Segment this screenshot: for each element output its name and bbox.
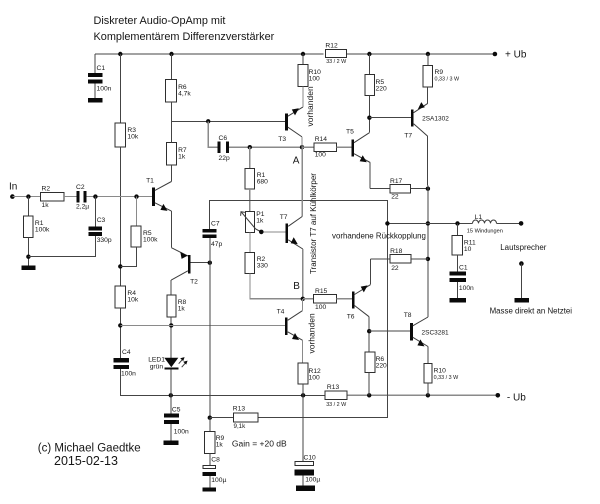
svg-text:T7: T7 bbox=[280, 214, 288, 221]
svg-text:10k: 10k bbox=[127, 297, 138, 304]
wire R10 bottom to T3 bbox=[302, 86, 304, 107]
svg-text:100µ: 100µ bbox=[305, 477, 320, 484]
node junction R10 top bbox=[301, 52, 305, 56]
transistor T7R 2SA1302 bbox=[411, 110, 414, 127]
svg-text:T3: T3 bbox=[278, 136, 286, 143]
node junction R10b bottom bbox=[426, 393, 430, 397]
transistor T8 2SC3281 bbox=[410, 323, 413, 341]
wire C1b bottom bbox=[457, 282, 459, 298]
wire P1 bottom to R2b bbox=[249, 232, 251, 252]
svg-text:C3: C3 bbox=[97, 217, 106, 224]
svg-text:T6: T6 bbox=[347, 314, 355, 321]
node junction R1 top bbox=[26, 194, 30, 198]
node junction R8 bottom rail bbox=[169, 323, 173, 327]
potentiometer P1 1k bbox=[245, 211, 254, 232]
wire R2b bottom to node B bbox=[250, 273, 303, 299]
wire C4 bottom corner bbox=[120, 369, 171, 395]
wire T6 emitter up bbox=[369, 259, 371, 285]
node junction C3 top bbox=[93, 194, 97, 198]
svg-text:0,33 / 3 W: 0,33 / 3 W bbox=[435, 76, 460, 82]
svg-text:C7: C7 bbox=[211, 221, 220, 228]
capacitor C10 100u bbox=[295, 462, 314, 466]
svg-text:100: 100 bbox=[309, 375, 320, 382]
wire +Ub top rail bbox=[95, 53, 324, 55]
wire C2 to T1 base bbox=[86, 196, 152, 198]
wire T2 base to node bbox=[191, 262, 210, 264]
svg-text:330: 330 bbox=[257, 263, 268, 270]
node junction output line bbox=[426, 221, 430, 225]
transistor T6 bbox=[352, 292, 355, 309]
resistor R6 4,7k bbox=[171, 54, 173, 80]
svg-text:R18: R18 bbox=[390, 248, 403, 255]
svg-text:A: A bbox=[293, 155, 300, 166]
node junction R11 top bbox=[455, 221, 459, 225]
svg-text:100: 100 bbox=[315, 152, 326, 159]
svg-text:C4: C4 bbox=[122, 349, 131, 356]
node junction T8 base bbox=[367, 329, 371, 333]
resistor R11 10 bbox=[457, 223, 459, 235]
svg-text:R13: R13 bbox=[327, 384, 340, 391]
svg-text:Transistor T7 auf Kühlkörper: Transistor T7 auf Kühlkörper bbox=[309, 173, 318, 274]
svg-text:C5: C5 bbox=[172, 407, 181, 414]
ground under C10 bbox=[296, 486, 315, 492]
wire R1b bottom to P1 bbox=[249, 189, 251, 212]
node output terminal bbox=[519, 221, 524, 226]
node junction R4 bottom rail bbox=[118, 323, 122, 327]
LED1 gruen bbox=[164, 358, 178, 367]
resistor R9 0,33/3W bbox=[427, 54, 429, 66]
svg-text:R15: R15 bbox=[315, 288, 328, 295]
wire T7R collector down output vertical bbox=[427, 136, 429, 314]
node junction T2 base bbox=[208, 261, 212, 265]
svg-text:220: 220 bbox=[376, 363, 387, 370]
ground under C8 bbox=[203, 487, 217, 491]
svg-text:vorhanden: vorhanden bbox=[307, 313, 317, 353]
wire C3 bottom to ground node bbox=[28, 236, 95, 257]
svg-text:C1: C1 bbox=[97, 65, 106, 72]
svg-text:2SC3281: 2SC3281 bbox=[422, 330, 449, 337]
svg-text:L1: L1 bbox=[475, 214, 483, 221]
ground under C5 bbox=[164, 441, 179, 445]
svg-text:T4: T4 bbox=[277, 309, 285, 316]
capacitor C1b 100n bbox=[457, 255, 459, 271]
node junction R6 top bbox=[169, 52, 173, 56]
svg-text:vorhandene Rückkopplung: vorhandene Rückkopplung bbox=[332, 232, 426, 241]
svg-text:T5: T5 bbox=[346, 129, 354, 136]
wire to T8 base bbox=[369, 330, 410, 332]
svg-text:47p: 47p bbox=[211, 241, 222, 248]
wire R3 top bbox=[119, 54, 121, 123]
transistor T2 bbox=[188, 255, 191, 273]
svg-text:R9: R9 bbox=[435, 69, 444, 76]
wire node to T3 base bbox=[172, 120, 286, 122]
svg-text:vorhanden: vorhanden bbox=[305, 86, 315, 126]
ground input bbox=[21, 266, 35, 270]
svg-text:B: B bbox=[293, 281, 300, 292]
wire R5b bottom to T5 collector bbox=[368, 95, 370, 132]
svg-text:Masse direkt an Netztei: Masse direkt an Netztei bbox=[490, 306, 573, 315]
svg-text:2015-02-13: 2015-02-13 bbox=[54, 454, 118, 468]
wire T3 lower to node A bbox=[301, 137, 303, 147]
resistor R17 22 bbox=[390, 184, 410, 193]
wire T6 collector down bbox=[368, 317, 370, 352]
resistor R5 100k bbox=[136, 197, 138, 226]
wire R4 bottom bbox=[119, 308, 121, 358]
capacitor C6 22p bbox=[218, 141, 221, 152]
transistor T4 bbox=[285, 317, 288, 335]
svg-text:100n: 100n bbox=[459, 285, 474, 292]
capacitor C5 100n bbox=[164, 413, 179, 417]
ground under C1 bbox=[88, 98, 103, 102]
svg-text:C10: C10 bbox=[304, 455, 317, 462]
svg-text:grün: grün bbox=[150, 364, 164, 371]
node junction feedback bottom bbox=[208, 416, 212, 420]
wire output rail bbox=[387, 222, 472, 224]
resistor R5b 220 bbox=[368, 54, 370, 74]
resistor R12 33/2W top rail bbox=[326, 49, 347, 57]
svg-text:1k: 1k bbox=[178, 306, 186, 313]
inductor L1 bbox=[473, 220, 497, 223]
svg-text:680: 680 bbox=[257, 179, 268, 186]
wire R12b bottom bbox=[302, 384, 304, 396]
wire B to R15 bbox=[303, 298, 314, 300]
svg-text:100: 100 bbox=[309, 76, 320, 83]
resistor R8 1k bbox=[167, 295, 176, 317]
resistor R18 22 bbox=[390, 255, 411, 264]
wire Masse stub bbox=[520, 264, 522, 299]
svg-text:LED1: LED1 bbox=[148, 357, 165, 364]
svg-text:1k: 1k bbox=[256, 218, 264, 225]
svg-text:T8: T8 bbox=[404, 312, 412, 319]
node junction R1b top bbox=[248, 145, 252, 149]
svg-text:100: 100 bbox=[315, 304, 326, 311]
wire R2 to C2 bbox=[64, 196, 76, 198]
svg-text:Komplementärem Differenzverstä: Komplementärem Differenzverstärker bbox=[94, 31, 275, 43]
resistor R9b 1k bbox=[209, 418, 211, 432]
svg-text:R17: R17 bbox=[390, 178, 403, 185]
wire R9 bottom to T7R emitter bbox=[427, 87, 429, 103]
svg-text:T2: T2 bbox=[190, 279, 198, 286]
resistor R15 100 bbox=[314, 295, 337, 303]
wire A node down bbox=[301, 147, 303, 216]
wire P1 wiper to T7 base bbox=[256, 229, 262, 232]
svg-text:C1: C1 bbox=[459, 265, 468, 272]
wire R5 bottom to R3R4 node bbox=[120, 247, 136, 266]
wire T8 collector up bbox=[427, 314, 429, 317]
svg-text:R14: R14 bbox=[315, 136, 328, 143]
capacitor C3 330p bbox=[94, 197, 96, 227]
svg-text:In: In bbox=[9, 182, 17, 193]
wire T4 collector to B bbox=[301, 299, 303, 311]
wire -Ub bottom rail bbox=[171, 394, 325, 396]
wire to R17 bbox=[370, 188, 390, 190]
wire feedback top line bbox=[209, 201, 387, 418]
svg-text:C8: C8 bbox=[211, 457, 220, 464]
wire R10b bottom bbox=[427, 383, 429, 396]
svg-text:1k: 1k bbox=[178, 154, 186, 161]
wire C5 top bbox=[170, 395, 172, 413]
node junction P1 wiper bbox=[259, 230, 264, 235]
svg-text:R2: R2 bbox=[42, 186, 51, 193]
wire T2 collector down bbox=[170, 280, 172, 295]
resistor R3 10k bbox=[115, 123, 126, 147]
wire C10 top bbox=[302, 395, 304, 461]
wire T4 base rail bbox=[120, 324, 285, 326]
node junction R9 top bbox=[426, 52, 430, 56]
wire C1 to ground bbox=[94, 84, 96, 98]
node junction R5 top T1 base bbox=[134, 194, 138, 198]
wire C5 bottom bbox=[170, 424, 172, 440]
resistor R10b 0,33/3W bbox=[424, 364, 432, 383]
wire T7 emitter to node B bbox=[302, 249, 304, 299]
wire node A to R14 bbox=[302, 146, 314, 148]
node junction T7R base bbox=[367, 116, 371, 120]
wire R6b bottom bbox=[368, 373, 370, 396]
svg-text:15 Windungen: 15 Windungen bbox=[467, 228, 503, 234]
capacitor C2 2,2u bbox=[76, 191, 79, 202]
node junction R17 output bbox=[426, 187, 430, 191]
svg-text:Diskreter Audio-OpAmp mit: Diskreter Audio-OpAmp mit bbox=[94, 15, 226, 27]
wire R3 bottom to R4 bbox=[119, 147, 121, 286]
wire to T7R base bbox=[369, 117, 411, 119]
svg-text:Gain = +20 dB: Gain = +20 dB bbox=[232, 438, 287, 448]
wire R18 to output vertical bbox=[411, 258, 428, 260]
svg-text:9,1k: 9,1k bbox=[234, 423, 247, 430]
svg-text:2,2µ: 2,2µ bbox=[76, 204, 89, 211]
node junction R3 top bbox=[118, 52, 122, 56]
svg-text:100µ: 100µ bbox=[211, 477, 226, 484]
capacitor C7 47p bbox=[203, 229, 217, 233]
svg-text:22p: 22p bbox=[219, 155, 230, 162]
wire R17 to output vertical bbox=[410, 188, 428, 190]
svg-text:+ Ub: + Ub bbox=[505, 50, 527, 61]
wire C6 to node A bbox=[229, 146, 302, 148]
capacitor C8 100u bbox=[209, 454, 211, 466]
wire input to R2 bbox=[12, 196, 40, 198]
svg-text:100n: 100n bbox=[121, 371, 136, 378]
svg-text:4,7k: 4,7k bbox=[178, 91, 191, 98]
svg-text:33 / 2 W: 33 / 2 W bbox=[326, 402, 347, 408]
svg-text:T1: T1 bbox=[146, 178, 154, 185]
wire T8 emitter down to R10b bbox=[427, 347, 429, 364]
node junction R1 C3 ground bbox=[26, 255, 30, 259]
resistor R14 100 bbox=[314, 143, 336, 151]
svg-text:100n: 100n bbox=[174, 429, 189, 436]
resistor R12b 100 bbox=[298, 363, 308, 384]
svg-text:C2: C2 bbox=[76, 184, 85, 191]
wire C10 bottom bbox=[302, 476, 304, 486]
transistor T7 mid bbox=[286, 223, 289, 243]
wire LED bottom bbox=[170, 369, 172, 395]
svg-text:- Ub: - Ub bbox=[507, 393, 526, 404]
resistor R2 1k bbox=[40, 192, 64, 201]
wire R1 bottom bbox=[27, 238, 29, 266]
svg-text:10: 10 bbox=[464, 246, 472, 253]
svg-text:10k: 10k bbox=[127, 134, 138, 141]
wire R15 to T6 base bbox=[336, 298, 352, 300]
resistor R6b 220 bbox=[365, 352, 375, 373]
node junction R5-bottom R3R4 bbox=[118, 264, 122, 268]
resistor R13 33/2W bottom rail bbox=[325, 391, 347, 400]
svg-text:100k: 100k bbox=[143, 237, 158, 244]
wire C1 branch bbox=[94, 54, 96, 73]
wire R7 top bbox=[171, 121, 173, 142]
node In terminal bbox=[10, 194, 15, 199]
transistor T3 bbox=[285, 113, 288, 130]
svg-text:2SA1302: 2SA1302 bbox=[422, 116, 449, 123]
wire R14 to T5 base bbox=[337, 146, 352, 148]
transistor T5 bbox=[351, 140, 354, 157]
svg-text:Lautsprecher: Lautsprecher bbox=[500, 243, 546, 252]
wire R8 bottom bbox=[170, 317, 172, 358]
wire T1 emitter down bbox=[170, 211, 172, 248]
svg-text:100k: 100k bbox=[35, 227, 50, 234]
resistor R1b 680 bbox=[249, 147, 251, 168]
node junction B bbox=[301, 297, 305, 301]
node junction LED C5 bottom bbox=[169, 393, 173, 397]
node junction R5 top bbox=[367, 52, 371, 56]
wire R7 bottom to T1 collector bbox=[170, 165, 172, 182]
svg-text:100n: 100n bbox=[97, 86, 112, 93]
wire to R13b bbox=[210, 417, 234, 419]
node +Ub terminal bbox=[493, 52, 498, 57]
node junction C6 R7 bbox=[206, 119, 210, 123]
wire C7 bottom long vertical bbox=[209, 238, 211, 418]
svg-text:R12: R12 bbox=[325, 43, 338, 50]
ground under C1b bbox=[450, 298, 466, 303]
wire R6 bottom bbox=[171, 102, 173, 121]
node Masse stub top bbox=[519, 261, 524, 266]
resistor R10 100 bbox=[302, 54, 304, 65]
resistor R2b 330 bbox=[245, 253, 255, 274]
wire L1 to terminal bbox=[497, 222, 522, 224]
capacitor C4 100n bbox=[114, 358, 130, 362]
node junction A bbox=[300, 145, 304, 149]
wire C8 bottom bbox=[209, 476, 211, 487]
wire to R18 bbox=[370, 258, 390, 260]
node junction R18 bbox=[426, 257, 430, 261]
svg-text:220: 220 bbox=[376, 86, 387, 93]
svg-text:22: 22 bbox=[391, 194, 399, 201]
resistor R7 1k bbox=[166, 143, 176, 166]
svg-text:(c) Michael Gaedtke: (c) Michael Gaedtke bbox=[38, 442, 141, 454]
node junction R6b bottom bbox=[367, 393, 371, 397]
svg-text:C6: C6 bbox=[219, 135, 228, 142]
svg-text:R13: R13 bbox=[233, 406, 246, 413]
node -Ub terminal bbox=[496, 393, 501, 398]
svg-text:1k: 1k bbox=[42, 202, 50, 209]
svg-text:T7: T7 bbox=[404, 133, 412, 140]
ground Masse stub bbox=[514, 298, 529, 303]
wire C6 branch bbox=[208, 121, 217, 147]
node junction R12b bottom bbox=[301, 393, 305, 397]
resistor R4 10k bbox=[115, 286, 126, 308]
svg-text:33 / 2 W: 33 / 2 W bbox=[326, 59, 347, 65]
capacitor C1 100n bbox=[88, 73, 103, 77]
svg-text:22: 22 bbox=[391, 265, 399, 272]
node junction feedback tap bbox=[385, 221, 389, 225]
wire T1-T2 emitter diagonal bbox=[171, 248, 188, 256]
svg-text:330p: 330p bbox=[97, 237, 112, 244]
svg-text:R10: R10 bbox=[434, 368, 447, 375]
resistor R13b 9,1k bbox=[234, 413, 259, 422]
wire T5 emitter down bbox=[369, 163, 371, 189]
resistor R1 100k bbox=[27, 197, 29, 216]
svg-text:1k: 1k bbox=[216, 442, 224, 449]
transistor T1 bbox=[152, 188, 155, 206]
wire T4 emitter down to R12b bbox=[301, 340, 303, 363]
svg-text:0,33 / 3 W: 0,33 / 3 W bbox=[434, 375, 459, 381]
